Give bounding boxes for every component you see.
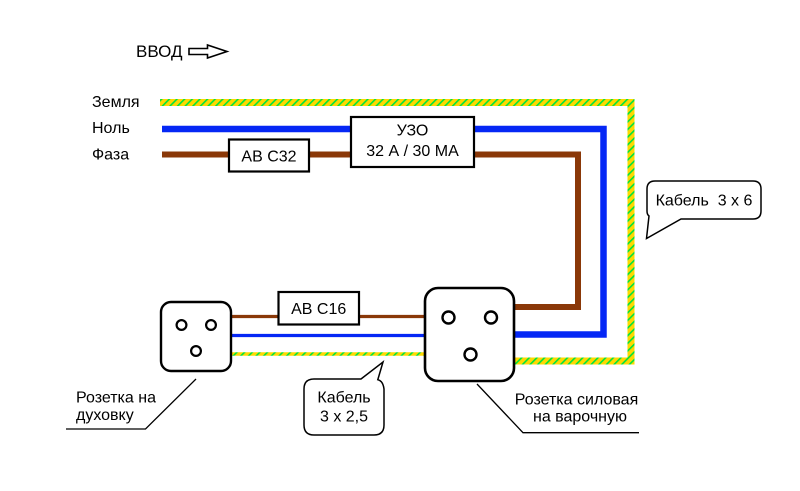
callout Кабель 3x6	[647, 181, 762, 239]
wire phase main 3x6	[162, 155, 578, 308]
svg-text:Ноль: Ноль	[92, 120, 130, 137]
svg-text:3 х 2,5: 3 х 2,5	[320, 409, 368, 426]
svg-text:ВВОД: ВВОД	[136, 42, 183, 61]
leader line right socket	[477, 384, 639, 433]
wire neutral main 3x6	[162, 129, 604, 335]
callout Кабель 3x2.5	[304, 362, 384, 435]
svg-text:Розетка силовая: Розетка силовая	[515, 392, 638, 409]
svg-text:Кабель 3 х 6: Кабель 3 х 6	[656, 193, 753, 210]
svg-text:Земля: Земля	[92, 94, 140, 111]
label Земля	[92, 94, 140, 111]
svg-text:32 А / 30 МА: 32 А / 30 МА	[366, 143, 459, 160]
svg-text:АВ С32: АВ С32	[241, 149, 296, 166]
svg-text:Розетка на: Розетка на	[76, 390, 156, 407]
svg-text:Кабель: Кабель	[317, 390, 370, 407]
label Фаза	[92, 147, 129, 164]
label Розетка на духовку	[76, 390, 156, 425]
text ВВОД	[136, 42, 183, 61]
label Розетка силовая на варочную	[515, 392, 638, 426]
wire earth 3x2.5	[225, 352, 430, 356]
wire earth PE main 3x6	[160, 103, 631, 362]
wire neutral 3x2.5	[225, 334, 430, 337]
input arrow	[189, 45, 227, 58]
label Ноль	[92, 120, 130, 137]
svg-text:духовку: духовку	[76, 407, 134, 424]
svg-text:на варочную: на варочную	[533, 409, 627, 426]
socket oven	[161, 302, 231, 371]
leader line left socket	[66, 379, 196, 429]
svg-text:Фаза: Фаза	[92, 147, 129, 164]
socket hob power	[425, 288, 514, 381]
breaker AB C32	[229, 140, 309, 172]
svg-text:УЗО: УЗО	[397, 123, 429, 140]
breaker AB C16	[279, 292, 360, 325]
svg-text:АВ С16: АВ С16	[291, 301, 346, 318]
RCD UZO 32A/30mA	[351, 117, 474, 167]
wire phase 3x2.5	[225, 315, 430, 318]
